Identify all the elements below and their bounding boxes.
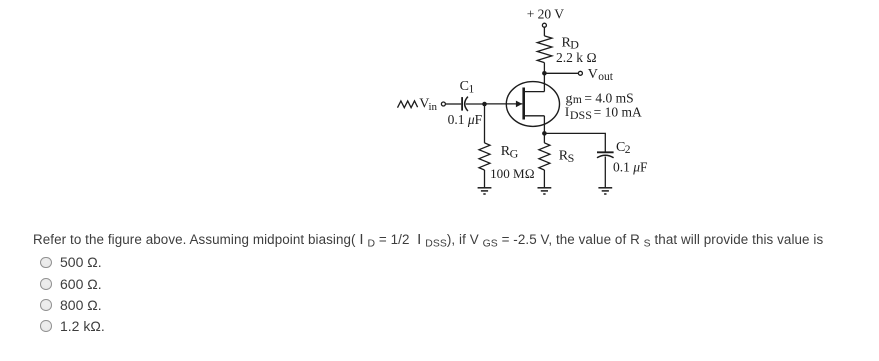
- resistor RD: [537, 36, 552, 63]
- node gate: [482, 102, 487, 107]
- wire drain node to Vout terminal: [544, 72, 578, 74]
- svg-text:S: S: [568, 151, 575, 165]
- resistor RS: [539, 143, 550, 170]
- svg-text:+ 20 V: + 20 V: [527, 6, 565, 21]
- capacitor C1: [462, 97, 468, 111]
- label C2 value 0.1 µF: [613, 160, 648, 175]
- wire source node to C2: [544, 133, 605, 151]
- terminal Vout: [578, 71, 582, 75]
- node drain: [542, 71, 547, 76]
- ground RS: [538, 188, 552, 194]
- wire C2 to ground: [604, 157, 606, 188]
- wire RD to drain node: [543, 63, 545, 74]
- wire RG to ground: [484, 170, 486, 187]
- svg-text:DSS: DSS: [570, 108, 592, 122]
- svg-text:2: 2: [625, 144, 631, 156]
- svg-text:2.2 k Ω: 2.2 k Ω: [556, 50, 597, 65]
- svg-text:= 4.0 mS: = 4.0 mS: [584, 91, 633, 106]
- label RG: [501, 144, 519, 160]
- svg-text:m: m: [573, 94, 582, 106]
- supply terminal: [542, 23, 546, 27]
- label gm = 4.0 mS: [566, 91, 634, 107]
- transistor Q1 n-channel JFET: [506, 73, 559, 133]
- ground C2: [598, 188, 612, 194]
- svg-text:100 MΩ: 100 MΩ: [490, 166, 535, 181]
- ground RG: [478, 188, 492, 194]
- svg-text:in: in: [429, 101, 438, 113]
- wire gate node to RG: [484, 104, 486, 143]
- label RS: [559, 148, 575, 164]
- svg-text:out: out: [598, 71, 614, 83]
- node source: [542, 131, 547, 136]
- label RD value 2.2 kΩ: [556, 50, 597, 65]
- wire Vin terminal to C1: [446, 103, 462, 105]
- svg-text:V: V: [588, 67, 598, 82]
- wire RS to ground: [543, 170, 545, 187]
- svg-text:0.1 μF: 0.1 μF: [613, 160, 648, 175]
- wire C1 to gate node: [466, 103, 485, 105]
- wire source node to RS: [543, 133, 545, 143]
- AC source symbol: [398, 101, 418, 108]
- svg-text:= 10 mA: = 10 mA: [594, 104, 642, 119]
- label RD: [562, 35, 580, 51]
- label C1 value 0.1 µF: [448, 112, 483, 127]
- svg-text:G: G: [510, 147, 519, 161]
- label IDSS = 10 mA: [565, 104, 642, 122]
- svg-text:1: 1: [469, 84, 475, 96]
- label Vout: [588, 67, 614, 83]
- label C1: [460, 79, 475, 96]
- label Vin: [419, 97, 437, 113]
- svg-text:0.1 μF: 0.1 μF: [448, 112, 483, 127]
- label +20 V: [527, 6, 565, 21]
- terminal Vin: [441, 102, 445, 106]
- label RG value 100 MΩ: [490, 166, 535, 181]
- svg-text:I: I: [565, 104, 569, 119]
- capacitor C2: [597, 152, 614, 158]
- wire gate node to transistor gate: [485, 103, 507, 105]
- label C2: [616, 140, 631, 156]
- resistor RG: [479, 143, 490, 170]
- wire supply to RD: [543, 27, 545, 36]
